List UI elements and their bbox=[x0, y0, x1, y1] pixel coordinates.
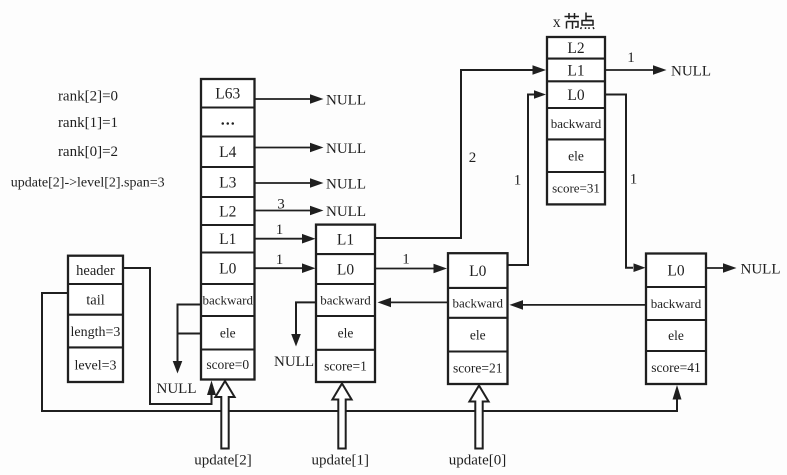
wire L4 -> NULL bbox=[255, 141, 367, 157]
node score=21 bbox=[448, 253, 508, 384]
svg-text:ele: ele bbox=[338, 326, 354, 341]
wire L63 -> NULL bbox=[255, 92, 367, 108]
hollow arrow update[2] bbox=[215, 381, 234, 449]
svg-text:L1: L1 bbox=[337, 232, 354, 249]
svg-text:L4: L4 bbox=[219, 144, 236, 161]
svg-text:L2: L2 bbox=[567, 40, 584, 57]
caption: x jiedian (x node) bbox=[553, 13, 594, 32]
svg-text:L0: L0 bbox=[337, 261, 354, 278]
wire tail pointer -> node41 (bottom, long line) bbox=[42, 293, 682, 411]
svg-text:ele: ele bbox=[668, 328, 684, 343]
svg-text:level=3: level=3 bbox=[74, 359, 116, 374]
svg-text:update[2]: update[2] bbox=[194, 453, 251, 469]
svg-text:1: 1 bbox=[276, 222, 284, 238]
svg-text:L1: L1 bbox=[567, 62, 584, 79]
svg-text:1: 1 bbox=[630, 172, 638, 188]
svg-text:length=3: length=3 bbox=[71, 325, 121, 340]
svg-text:L3: L3 bbox=[219, 174, 236, 191]
svg-text:1: 1 bbox=[514, 173, 522, 189]
hollow arrow update[1] bbox=[332, 384, 351, 449]
svg-text:NULL: NULL bbox=[326, 176, 366, 192]
backward arrow node21 -> node1 bbox=[378, 298, 449, 308]
svg-text:3: 3 bbox=[277, 197, 285, 213]
svg-text:backward: backward bbox=[202, 292, 253, 307]
svg-text:ele: ele bbox=[470, 327, 486, 342]
zskiplist header struct box bbox=[68, 256, 123, 382]
svg-text:x: x bbox=[553, 14, 561, 31]
node score=1 bbox=[316, 225, 375, 382]
svg-text:rank[2]=0: rank[2]=0 bbox=[58, 88, 118, 104]
wire node1 L0 -> node21 L0, span 1 bbox=[375, 264, 447, 274]
svg-text:ele: ele bbox=[220, 325, 236, 340]
wire header L0 -> node1 L0, span 1 bbox=[255, 263, 316, 273]
svg-text:update[2]->level[2].span=3: update[2]->level[2].span=3 bbox=[11, 176, 165, 191]
svg-text:score=0: score=0 bbox=[206, 357, 249, 372]
svg-text:L0: L0 bbox=[567, 87, 584, 104]
svg-text:backward: backward bbox=[320, 292, 371, 307]
svg-text:NULL: NULL bbox=[274, 354, 314, 370]
wire header-node backward/ele -> NULL (down) bbox=[173, 304, 201, 374]
svg-text:backward: backward bbox=[651, 296, 702, 311]
svg-text:L63: L63 bbox=[215, 86, 240, 103]
svg-text:backward: backward bbox=[452, 295, 503, 310]
svg-text:L2: L2 bbox=[219, 203, 236, 220]
wire L3 -> NULL bbox=[255, 176, 367, 192]
svg-text:NULL: NULL bbox=[671, 63, 711, 79]
svg-text:ele: ele bbox=[568, 148, 584, 163]
wire node1 L1 up to x node L1 bbox=[375, 65, 546, 238]
svg-text:score=41: score=41 bbox=[651, 360, 701, 375]
svg-text:1: 1 bbox=[276, 252, 284, 268]
svg-text:NULL: NULL bbox=[326, 141, 366, 157]
wire header L1 -> node1 L1, span 1 bbox=[255, 234, 316, 244]
svg-text:1: 1 bbox=[627, 50, 635, 66]
wire node41 L0 -> NULL bbox=[706, 261, 781, 277]
svg-text:score=21: score=21 bbox=[453, 360, 503, 375]
svg-text:NULL: NULL bbox=[741, 261, 781, 277]
svg-text:NULL: NULL bbox=[326, 204, 366, 220]
wire L2 -> NULL bbox=[255, 204, 367, 220]
svg-text:L0: L0 bbox=[469, 263, 486, 280]
svg-text:NULL: NULL bbox=[157, 381, 197, 397]
header node (levels L63..L0, backward, ele, score=0) bbox=[201, 79, 255, 380]
svg-text:1: 1 bbox=[402, 252, 410, 268]
svg-text:NULL: NULL bbox=[326, 92, 366, 108]
wire node21 L0 up to x node L0 bbox=[508, 90, 547, 265]
svg-text:rank[0]=2: rank[0]=2 bbox=[58, 144, 118, 160]
svg-text:2: 2 bbox=[469, 150, 477, 166]
svg-text:L0: L0 bbox=[219, 261, 236, 278]
hollow arrow update[0] bbox=[469, 386, 488, 449]
svg-text:score=1: score=1 bbox=[324, 359, 367, 374]
svg-text:L1: L1 bbox=[219, 231, 236, 248]
wire x node L1 -> NULL, span 1 bbox=[605, 63, 711, 79]
svg-text:header: header bbox=[76, 263, 115, 279]
svg-text:score=31: score=31 bbox=[552, 181, 600, 196]
svg-text:tail: tail bbox=[86, 292, 105, 308]
x node (new node, score=31) bbox=[547, 37, 605, 204]
svg-text:update[1]: update[1] bbox=[312, 453, 369, 469]
svg-text:rank[1]=1: rank[1]=1 bbox=[58, 115, 118, 131]
svg-text:backward: backward bbox=[551, 116, 602, 131]
wire header pointer -> header node (bottom) bbox=[123, 268, 216, 404]
wire x node L0 down to node41 L0 bbox=[605, 95, 646, 273]
wire node1 backward -> NULL (down) bbox=[291, 302, 316, 346]
svg-text:L0: L0 bbox=[667, 263, 684, 280]
node score=41 bbox=[646, 254, 706, 385]
backward arrow node41 -> node21 bbox=[510, 300, 647, 310]
svg-text:update[0]: update[0] bbox=[449, 453, 506, 469]
